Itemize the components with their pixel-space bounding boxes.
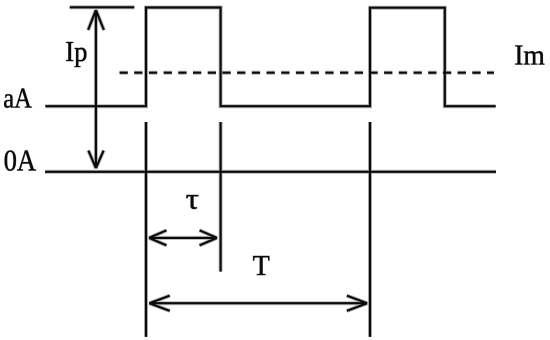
crisp core pass [45, 7, 496, 337]
soft halo pass [45, 7, 496, 337]
